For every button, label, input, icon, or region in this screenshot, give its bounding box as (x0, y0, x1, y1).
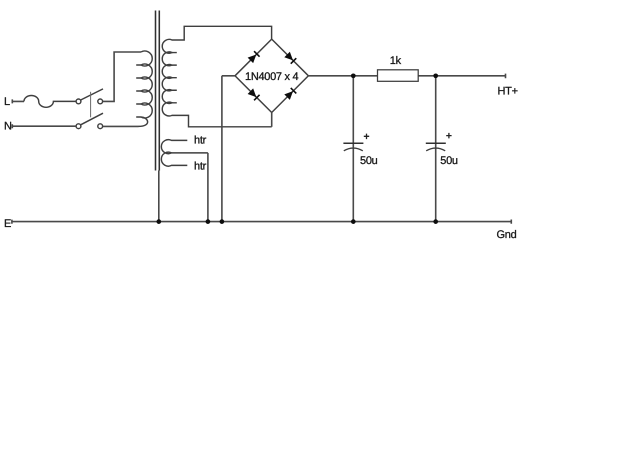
wire capacitor C2 branch (435, 76, 437, 222)
svg-text:Gnd: Gnd (497, 229, 517, 241)
diode D4 (bottom-right) (284, 88, 296, 100)
junction C2 ground (433, 219, 438, 224)
transformer T1 secondary winding (162, 26, 271, 127)
wire bridge bottom to secondary (271, 113, 273, 127)
junction C1 ground (351, 219, 356, 224)
svg-text:E: E (4, 218, 11, 230)
svg-text:htr: htr (194, 160, 207, 172)
junction heater-CT-ground (206, 219, 211, 224)
transformer T1 heater winding (161, 140, 208, 166)
wire N input (12, 124, 76, 128)
transformer T1 core (156, 11, 160, 171)
capacitor C1 (343, 134, 369, 151)
wire L switch to primary top (103, 52, 141, 101)
svg-text:htr: htr (194, 135, 207, 147)
bridge rectifier diamond (235, 39, 308, 112)
wire heater centre-tap to ground (207, 153, 209, 222)
diode D1 (top-left) (248, 51, 260, 63)
junction C1 top (351, 73, 356, 78)
svg-text:N: N (4, 121, 12, 133)
wire bridge minus to ground (222, 76, 235, 222)
wire capacitor C1 branch (352, 76, 354, 222)
wire HT+ rail (308, 74, 505, 79)
svg-text:1k: 1k (390, 55, 402, 67)
switch S1b (N pole) (76, 113, 103, 128)
resistor R1 (378, 70, 419, 82)
svg-text:L: L (4, 96, 10, 108)
wire L input (12, 99, 24, 103)
svg-text:50u: 50u (440, 155, 458, 167)
junction core-ground (156, 219, 161, 224)
junction bridge-minus-ground (220, 219, 225, 224)
svg-text:HT+: HT+ (498, 86, 518, 98)
transformer T1 primary winding (136, 51, 152, 126)
switch S1a (L pole) (76, 89, 103, 104)
capacitor C2 (426, 133, 452, 151)
switch link (90, 92, 92, 118)
diode D3 (bottom-left) (248, 88, 260, 100)
wire ground rail E (12, 220, 511, 224)
wire core screen to ground (158, 171, 160, 222)
svg-text:50u: 50u (360, 155, 378, 167)
diode D2 (top-right) (284, 52, 296, 64)
junction C2 top (433, 73, 438, 78)
wire N switch to primary bottom (103, 125, 139, 127)
svg-text:1N4007 x 4: 1N4007 x 4 (245, 71, 298, 83)
fuse F1 (24, 96, 76, 108)
